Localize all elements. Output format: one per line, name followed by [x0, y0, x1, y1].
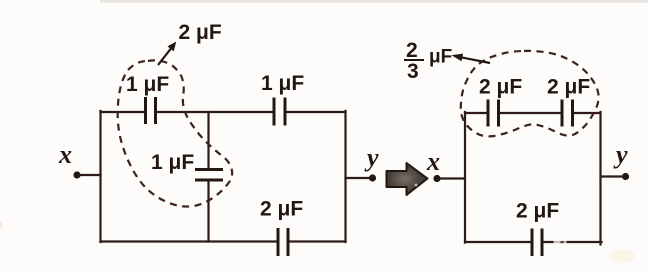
- bottom right scan smudge: [609, 249, 635, 263]
- wire: bottom rail left segment: [465, 241, 531, 243]
- wire: top rail middle segment: [157, 111, 273, 113]
- svg-text:2 μF: 2 μF: [260, 198, 303, 221]
- wire: y lead: [346, 177, 373, 179]
- capacitor C1 1uF top-left plates: [146, 97, 156, 124]
- svg-text:μF: μF: [429, 47, 452, 68]
- capacitor C7 2uF bottom plates: [532, 229, 542, 257]
- svg-text:x: x: [426, 147, 440, 176]
- capacitor C5 2uF top-left plates: [488, 100, 499, 127]
- wire: x lead: [437, 177, 465, 179]
- svg-text:2: 2: [406, 39, 418, 62]
- svg-text:1 μF: 1 μF: [261, 72, 304, 95]
- node y terminal dot: [622, 173, 629, 180]
- wire: x lead: [77, 174, 101, 176]
- wire: left vertical: [464, 112, 466, 243]
- capacitor C4 2uF bottom plates: [278, 228, 288, 256]
- capacitor C3 1uF middle plates: [195, 170, 223, 181]
- block arrow highlight speck: [415, 184, 418, 187]
- wire: right vertical: [599, 112, 601, 245]
- top scan smudge: [100, 0, 648, 3]
- dashed equivalence loop around C5 and C6: [461, 51, 599, 136]
- capacitor C2 1uF top-right plates: [274, 98, 285, 126]
- wire: top rail right segment: [574, 112, 601, 114]
- wire: bottom rail right segment: [290, 240, 346, 242]
- wire: top rail middle segment: [500, 112, 561, 114]
- equivalent value label 2/3 uF fraction: [404, 39, 452, 83]
- wire: bottom rail right segment: [543, 241, 602, 243]
- wire: top rail left segment: [101, 111, 145, 113]
- wire: top rail left segment: [465, 112, 487, 114]
- svg-text:2 μF: 2 μF: [179, 21, 222, 44]
- svg-text:3: 3: [407, 60, 419, 83]
- svg-text:1 μF: 1 μF: [126, 73, 169, 96]
- wire: right vertical: [344, 111, 346, 242]
- wire: middle branch lower: [207, 182, 209, 242]
- node x terminal dot: [73, 171, 80, 178]
- pointer arrow to 2uF equivalent label: [158, 43, 176, 66]
- bottom rail scan fade: [554, 240, 567, 244]
- node x terminal dot: [433, 175, 440, 182]
- wire: top rail right segment: [286, 111, 346, 113]
- svg-text:2 μF: 2 μF: [479, 76, 522, 99]
- svg-text:y: y: [364, 143, 379, 172]
- svg-text:2 μF: 2 μF: [547, 76, 590, 99]
- pointer arrow to 2/3 uF equivalent label: [453, 54, 490, 63]
- svg-text:2 μF: 2 μF: [516, 200, 559, 223]
- wire: left vertical: [99, 111, 101, 242]
- left edge scan smudge: [0, 221, 3, 229]
- node y terminal dot: [369, 174, 376, 181]
- svg-text:1 μF: 1 μF: [151, 151, 194, 174]
- wire: middle branch upper: [207, 112, 209, 168]
- wire: y lead: [601, 175, 626, 177]
- wire: bottom rail left segment: [101, 240, 277, 242]
- svg-text:x: x: [58, 140, 72, 169]
- dashed equivalence loop around C1 and C3: [118, 60, 233, 206]
- capacitor C6 2uF top-right plates: [562, 100, 573, 127]
- svg-text:y: y: [613, 140, 628, 169]
